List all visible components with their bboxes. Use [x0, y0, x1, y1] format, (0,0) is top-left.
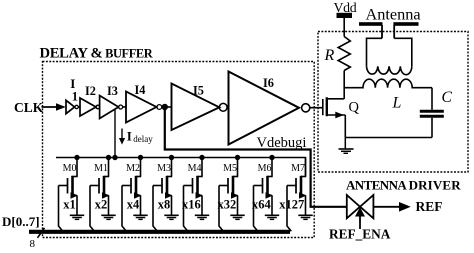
capacitor C [420, 88, 444, 138]
svg-text:DELAY & BUFFER: DELAY & BUFFER [40, 46, 154, 62]
label Idelay with down arrow [119, 128, 153, 144]
svg-text:M2: M2 [126, 163, 140, 174]
transistor Q [323, 88, 346, 138]
junction dot rail-M1 [106, 155, 111, 160]
svg-text:I: I [70, 76, 75, 91]
transistor M7 with ground and gate leg [287, 158, 313, 232]
wire R to drain node [343, 71, 345, 89]
svg-text:R: R [324, 47, 335, 64]
svg-text:delay: delay [133, 134, 153, 144]
junction dot rail-M2 [138, 155, 143, 160]
wire I3 to I4 [123, 106, 126, 108]
inverter I2 [80, 98, 100, 116]
antenna terminals [359, 5, 421, 39]
wire REF output with arrowhead [373, 202, 410, 212]
wire Vdebug net: from I4/I5 junction down, right, down, to REF switch [165, 107, 347, 207]
inverter I6 [229, 72, 310, 145]
resistor R [338, 37, 350, 71]
svg-text:DRIVER: DRIVER [409, 178, 462, 193]
svg-text:I4: I4 [135, 83, 146, 97]
junction dot rail-M5 [235, 155, 240, 160]
wire tank bottom [345, 137, 432, 139]
svg-text:x4: x4 [127, 198, 140, 212]
inductor L secondary winding [344, 79, 432, 88]
transistor M0 with ground and gate leg [59, 158, 85, 232]
svg-text:x64: x64 [252, 198, 272, 212]
transformer primary winding [367, 38, 412, 66]
wire I4 to I5 [162, 106, 172, 108]
transistor M3 with ground and gate leg [153, 158, 179, 232]
power Vdd [334, 0, 357, 37]
svg-text:8: 8 [30, 238, 36, 248]
transistor M4 with ground and gate leg [184, 158, 210, 232]
transistor M5 with ground and gate leg [219, 158, 245, 232]
svg-text:M6: M6 [258, 163, 272, 174]
wire I1 to I2 [78, 106, 80, 108]
svg-text:Vdebugi: Vdebugi [257, 135, 307, 151]
svg-text:Vdd: Vdd [334, 0, 357, 15]
antenna driver dashed box [318, 32, 468, 173]
svg-text:M7: M7 [291, 163, 305, 174]
junction dot rail-M4 [199, 155, 204, 160]
junction dot rail-M6 [269, 155, 274, 160]
svg-text:x16: x16 [182, 198, 201, 212]
wire REF_ENA control with up arrow [355, 207, 365, 229]
svg-text:I: I [127, 128, 132, 143]
junction dot rail-M0 [74, 155, 79, 160]
svg-text:Antenna: Antenna [366, 5, 421, 24]
svg-text:Q: Q [349, 99, 360, 115]
svg-text:x32: x32 [218, 198, 237, 212]
wire Idelay rail (drain rail) [56, 158, 306, 177]
svg-text:I3: I3 [107, 84, 118, 98]
inverter I5 [172, 84, 228, 131]
junction dot after I4 [162, 104, 168, 110]
switch REF_ENA (transmission gate bowtie) [347, 195, 374, 218]
svg-text:I5: I5 [193, 84, 204, 98]
junction dot rail-Idelay tap [112, 155, 117, 160]
inverter I4 [126, 92, 162, 123]
svg-text:CLK: CLK [14, 100, 44, 115]
inverter I3 [100, 96, 123, 119]
transistor M1 with ground and gate leg [90, 158, 116, 232]
ground under Q [339, 138, 354, 154]
wire I5 to I6 [227, 106, 228, 108]
svg-text:M1: M1 [94, 163, 108, 174]
svg-text:M5: M5 [223, 163, 237, 174]
inverter I1 [66, 100, 78, 113]
wire CLK input with arrowhead [42, 103, 66, 111]
svg-text:REF_ENA: REF_ENA [329, 227, 391, 242]
svg-text:D[0..7]: D[0..7] [2, 214, 40, 229]
svg-text:M0: M0 [63, 163, 77, 174]
svg-text:1: 1 [72, 90, 78, 104]
wire Idelay tap from I3 down to rail [114, 110, 116, 158]
svg-text:x127: x127 [279, 198, 304, 212]
svg-text:x1: x1 [63, 198, 76, 212]
svg-text:I6: I6 [263, 76, 274, 90]
wire I6 output to Q gate [310, 107, 323, 109]
bus width slash [38, 228, 45, 238]
transistor M6 with ground and gate leg [254, 158, 280, 232]
transistor M2 with ground and gate leg [122, 158, 148, 232]
svg-text:x2: x2 [95, 198, 108, 212]
svg-text:L: L [392, 95, 402, 112]
svg-text:ANTENNA: ANTENNA [346, 178, 407, 193]
svg-text:x8: x8 [158, 198, 171, 212]
bus D[0..7] thick line [29, 230, 290, 234]
svg-text:REF: REF [416, 199, 443, 214]
junction dot rail-M3 [169, 155, 174, 160]
svg-text:M4: M4 [188, 163, 202, 174]
svg-text:M3: M3 [157, 163, 171, 174]
svg-text:I2: I2 [85, 84, 96, 98]
delay & buffer dashed box [43, 62, 315, 238]
svg-text:C: C [442, 89, 453, 106]
